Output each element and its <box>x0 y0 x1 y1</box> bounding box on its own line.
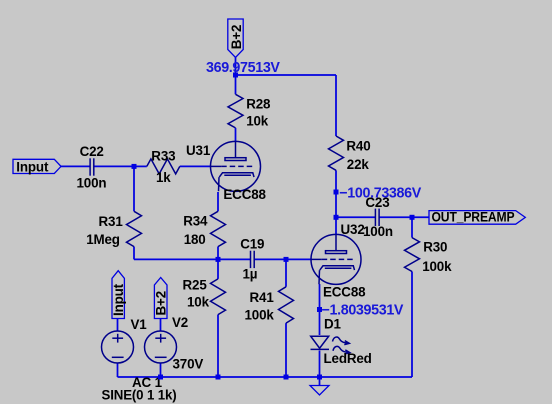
svg-text:100n: 100n <box>363 224 393 239</box>
svg-text:C22: C22 <box>80 144 104 159</box>
node junction at 369V rail <box>233 73 238 78</box>
svg-text:22k: 22k <box>347 157 370 172</box>
wire R41 top lead <box>285 259 287 286</box>
svg-text:R28: R28 <box>246 97 271 112</box>
svg-text:R34: R34 <box>183 213 208 228</box>
wire D1 to ground rail <box>319 351 321 378</box>
wire C23 left <box>336 216 375 218</box>
net flag B+2 (above V2) <box>154 278 167 319</box>
svg-text:OUT_PREAMP: OUT_PREAMP <box>432 210 515 225</box>
svg-text:1µ: 1µ <box>243 266 258 281</box>
node anchor -1.8V <box>317 307 322 312</box>
wire C23 node to U32 plate <box>335 217 337 235</box>
node junction rail ground <box>317 375 322 380</box>
node junction C23 right / R30 <box>410 215 415 220</box>
wire R33 to U31 grid <box>180 165 211 167</box>
wire R41 bottom lead <box>285 323 287 377</box>
wire node to R33 <box>134 165 147 167</box>
svg-text:V1: V1 <box>131 317 148 332</box>
svg-text:U32: U32 <box>341 222 365 237</box>
wire V2 top <box>160 319 162 332</box>
wire C22 to node <box>94 165 134 167</box>
svg-text:180: 180 <box>184 232 206 247</box>
net flag B+2 (top) <box>228 19 243 58</box>
wire R31 bottom lead <box>133 247 135 260</box>
node junction C23 left <box>334 215 339 220</box>
port flag OUT_PREAMP <box>429 211 525 225</box>
resistor R30 <box>405 238 420 272</box>
wire R40 bottom to C23 node <box>335 170 337 217</box>
svg-text:100k: 100k <box>245 308 275 323</box>
wire V1 bottom <box>117 363 119 377</box>
wire to OUT_PREAMP flag <box>412 216 429 218</box>
resistor R28 <box>228 94 243 128</box>
svg-text:R25: R25 <box>183 278 208 293</box>
LED D1 <box>311 336 329 348</box>
svg-text:C19: C19 <box>240 236 264 251</box>
svg-text:R41: R41 <box>250 290 275 305</box>
svg-text:Input: Input <box>16 159 49 174</box>
node junction mid rail R41 <box>284 257 289 262</box>
resistor R31 <box>127 211 142 246</box>
wire R31 top lead <box>133 166 135 211</box>
capacitor C23 <box>374 209 376 226</box>
op-amp U32 triode tube <box>311 234 361 284</box>
resistor R40 <box>329 136 344 170</box>
wire R34 top lead <box>217 192 219 211</box>
svg-text:100k: 100k <box>422 259 452 274</box>
wire mid rail right of C19 <box>254 258 311 260</box>
svg-text:ECC88: ECC88 <box>223 187 266 202</box>
svg-text:R30: R30 <box>423 239 447 254</box>
capacitor C22 <box>89 158 91 175</box>
port flag Input (left) <box>13 159 61 173</box>
svg-text:−100.73386V: −100.73386V <box>339 185 421 201</box>
wire Input flag to C22 <box>61 165 90 167</box>
node junction mid rail R25 <box>216 257 221 262</box>
svg-text:ECC88: ECC88 <box>323 285 366 300</box>
svg-text:LedRed: LedRed <box>324 351 372 366</box>
op-amp U31 triode tube <box>211 141 261 191</box>
wire R30 bottom lead <box>411 272 413 378</box>
node junction rail R41 <box>284 375 289 380</box>
wire V1 top <box>117 319 119 332</box>
wire B+2 flag stub <box>235 58 237 76</box>
wire R28 bottom lead <box>235 128 237 142</box>
resistor R41 <box>279 287 294 323</box>
svg-text:10k: 10k <box>187 295 210 310</box>
svg-text:370V: 370V <box>173 357 204 372</box>
voltage source V2 <box>145 331 177 363</box>
wire R25 top lead <box>217 259 219 279</box>
svg-text:100n: 100n <box>77 175 107 190</box>
wire R40 top lead <box>335 75 337 136</box>
wire top rail <box>236 74 337 76</box>
svg-text:R33: R33 <box>151 148 175 163</box>
svg-text:10k: 10k <box>246 114 269 129</box>
wire R30 top lead <box>411 217 413 237</box>
wire R34 bottom lead <box>217 247 219 260</box>
wire R28 top lead <box>235 75 237 94</box>
resistor R33 <box>147 159 180 174</box>
wire C23 right <box>379 216 412 218</box>
svg-text:−1.8039531V: −1.8039531V <box>322 303 404 319</box>
svg-text:D1: D1 <box>324 317 342 332</box>
svg-text:369.97513V: 369.97513V <box>206 60 280 76</box>
node junction rail V2 <box>158 375 163 380</box>
node anchor -100V <box>334 190 339 195</box>
wire U32 cathode to D1 <box>319 284 321 335</box>
svg-text:U31: U31 <box>186 143 211 158</box>
svg-text:1Meg: 1Meg <box>86 232 120 247</box>
node junction rail R25 <box>216 375 221 380</box>
svg-text:SINE(0 1 1k): SINE(0 1 1k) <box>102 388 177 403</box>
net flag Input (above V1) <box>112 271 124 319</box>
wire bottom ground rail <box>118 376 413 378</box>
svg-text:R40: R40 <box>346 139 370 154</box>
wire R25 bottom lead <box>217 315 219 377</box>
svg-text:B+2: B+2 <box>154 291 169 316</box>
wire V2 bottom <box>160 363 162 377</box>
node junction input node <box>132 164 137 169</box>
capacitor C19 <box>250 251 252 268</box>
svg-text:B+2: B+2 <box>229 25 244 50</box>
svg-text:V2: V2 <box>172 315 188 330</box>
svg-text:1k: 1k <box>156 170 171 185</box>
voltage source V1 <box>102 331 134 363</box>
svg-text:R31: R31 <box>99 214 124 229</box>
svg-text:Input: Input <box>111 283 126 316</box>
wire mid rail left of C19 <box>134 258 251 260</box>
resistor R34 <box>211 211 226 246</box>
resistor R25 <box>211 279 226 315</box>
ground symbol <box>319 377 321 386</box>
